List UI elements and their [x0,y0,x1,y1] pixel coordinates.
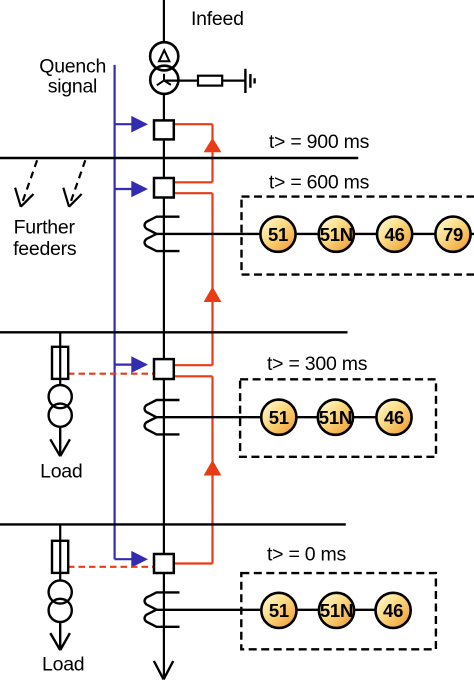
further feeder arrow 2 (dashed) [69,160,85,206]
relay 79 group 1 [435,217,470,252]
breaker Q1 [154,120,174,139]
fuse F1 [52,347,68,379]
quench branch to Q2 [115,188,133,190]
blocking arrow 1 [204,138,222,153]
fuse trip wire to Q3 (red dashed) [68,373,154,375]
wire Q4 to bottom arrow [163,573,165,679]
relay group 1 dashed box [242,197,474,275]
svg-text:Load: Load [42,653,84,675]
svg-text:t> = 0 ms: t> = 0 ms [267,543,347,565]
busbar 3 [0,523,346,525]
svg-text:Further: Further [14,216,76,238]
load transformer 1 circle b [49,404,72,427]
wire CT3 to relay group 3 [157,609,394,611]
fuse trip wire to Q4 (red dashed) [68,566,154,568]
busbar 1 [0,157,358,159]
svg-text:Quench: Quench [39,56,106,78]
wire infeed top [163,0,165,43]
feeder 2 wire from busbar 3 [59,524,61,580]
blocking arrow 2 [204,287,222,303]
blocking wire Q2 input [174,192,213,194]
CT1 winding [145,217,180,251]
relay 46 group 3 [376,593,411,628]
wire neutral to resistor [164,79,198,81]
wire Q3 down through busbar 3 to breaker Q4 [163,379,165,554]
relay 51 group 2 [261,400,296,435]
ground symbol [245,69,254,93]
further feeder arrow 1 (dashed) [21,160,37,206]
svg-text:51: 51 [268,224,288,245]
relay 51 group 3 [261,593,296,628]
svg-text:51N: 51N [320,224,353,245]
svg-text:51: 51 [269,407,289,428]
CT2 winding [145,400,180,434]
wire resistor to ground [222,79,245,81]
relay group 2 dashed box [240,379,436,457]
blocking wire Q2 output [174,181,213,183]
wire Q2 down through busbar 2 to breaker Q3 [163,198,165,360]
svg-text:51N: 51N [320,600,353,621]
load 1 arrow [50,427,70,456]
svg-text:46: 46 [384,407,404,428]
relay 51N group 1 [319,217,354,252]
svg-text:t> = 600 ms: t> = 600 ms [269,171,370,193]
blocking wire Q4 output [174,562,213,564]
relay 51 group 1 [260,217,295,252]
resistor R neutral earthing [198,76,222,86]
svg-text:feeders: feeders [13,238,77,260]
svg-text:signal: signal [48,76,97,98]
svg-text:Infeed: Infeed [191,8,244,30]
svg-text:t> = 900 ms: t> = 900 ms [269,131,370,153]
relay 51N group 3 [319,593,354,628]
CT3 winding [145,592,180,626]
quench signal line (blue) [113,65,115,559]
svg-text:t> = 300 ms: t> = 300 ms [267,353,368,375]
relay 51N group 2 [318,400,353,435]
breaker Q3 [154,359,174,379]
transformer T1 secondary circle [150,66,178,94]
svg-text:46: 46 [383,600,403,621]
svg-text:51: 51 [269,600,289,621]
load transformer 2 circle b [49,599,72,622]
relay 46 group 2 [376,400,411,435]
wire CT2 to relay group 2 [157,416,395,418]
breaker Q2 [154,178,174,198]
load transformer 2 circle a [49,580,72,603]
blocking wire vertical Q3 to Q2 [211,193,213,365]
arrow feeder outgoing bottom [154,661,173,679]
svg-text:46: 46 [385,224,405,245]
wire CT1 to relay group 1 [157,233,474,235]
wire Q1 to busbar 1 [163,139,165,178]
relay group 3 dashed box [241,573,436,649]
feeder 1 wire from busbar 2 [59,332,61,385]
fuse F2 [52,541,68,573]
breaker Q4 [154,554,174,573]
load 2 arrow [50,622,70,650]
quench branch to Q1 [115,123,133,125]
transformer T1 star symbol [157,74,171,86]
quench branch to Q3 [115,364,133,366]
svg-text:79: 79 [443,224,463,245]
transformer T1 primary circle [150,42,178,70]
svg-text:Load: Load [40,461,82,483]
relay 46 group 1 [377,217,412,252]
blocking wire Q3 input [174,375,213,377]
quench branch to Q4 [115,558,133,560]
blocking wire vertical Q2 to Q1 [211,124,213,182]
blocking wire Q1 input [174,123,213,125]
blocking arrow 3 [204,460,222,476]
load transformer 1 circle a [49,385,72,408]
busbar 2 [0,331,348,333]
blocking wire Q3 output [174,364,213,366]
wire transformer to breaker Q1 [163,94,165,121]
transformer T1 delta symbol [159,50,169,61]
svg-text:51N: 51N [319,407,352,428]
blocking wire vertical Q4 to Q3 [211,376,213,563]
